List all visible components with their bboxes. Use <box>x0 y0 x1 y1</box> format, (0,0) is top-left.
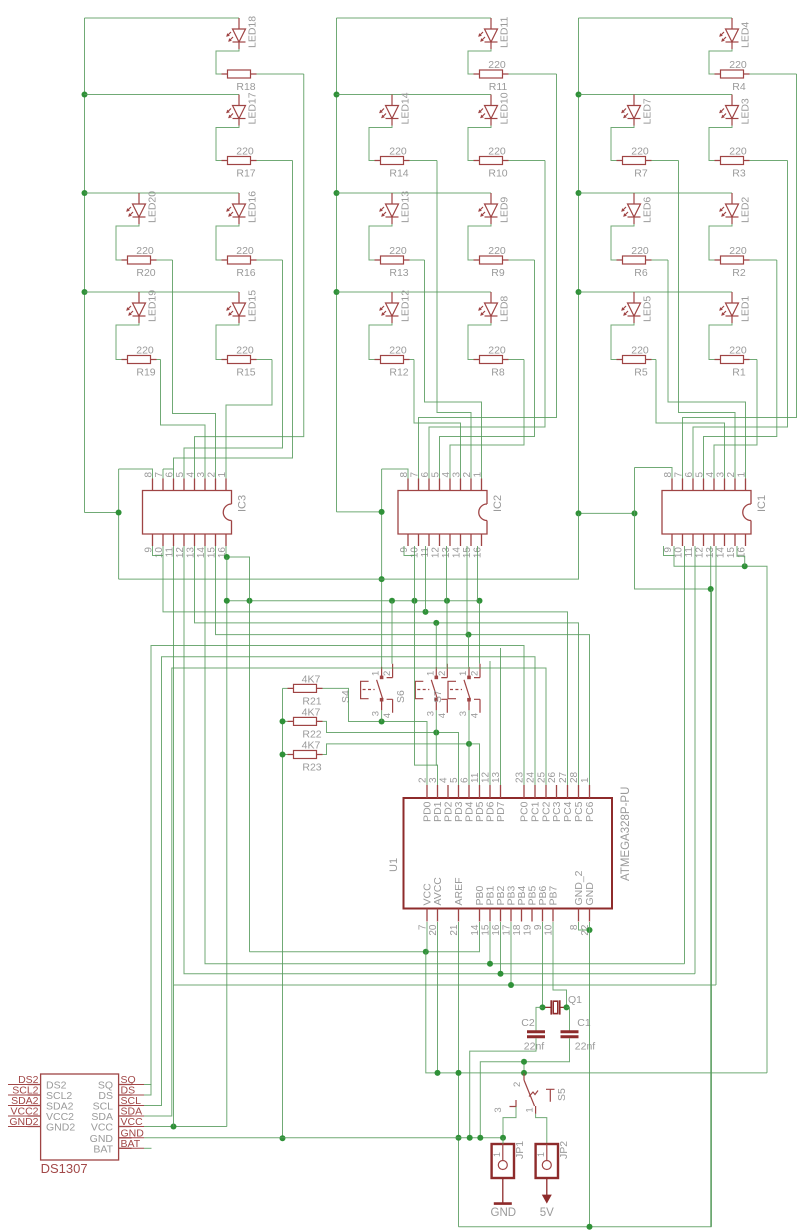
wire S5 pin3 to JP1 <box>503 1107 516 1138</box>
resistor R15 <box>222 356 257 364</box>
LED LED18 <box>227 18 246 49</box>
wire VCC drop <box>426 922 428 952</box>
svg-text:3: 3 <box>196 472 207 478</box>
junction bus row4 <box>82 289 88 295</box>
wire row3 <box>337 192 492 194</box>
supply symbol 5V <box>546 1178 548 1196</box>
svg-text:6: 6 <box>420 472 431 478</box>
svg-text:R4: R4 <box>732 81 746 93</box>
resistor R23 <box>288 751 323 759</box>
svg-text:R15: R15 <box>236 367 255 379</box>
LED LED16 <box>227 193 246 224</box>
svg-text:1: 1 <box>492 1152 502 1157</box>
junction VCC row IC3p11 <box>171 1124 177 1130</box>
svg-text:BAT: BAT <box>93 1143 113 1155</box>
svg-text:IC1: IC1 <box>756 495 768 512</box>
svg-text:2: 2 <box>512 1082 523 1087</box>
IC IC3 16-pin <box>143 479 232 547</box>
wire IC1 pin8 feeder <box>635 468 711 590</box>
wire IC3 pin9-10 bridge <box>153 546 164 556</box>
resistor R5 <box>617 356 652 364</box>
resistor R16 <box>222 256 257 264</box>
wire PB7 to crystal right <box>553 922 567 1007</box>
svg-text:C1: C1 <box>577 1017 591 1029</box>
wire row1 <box>85 17 240 19</box>
svg-text:8: 8 <box>144 472 155 478</box>
svg-text:220: 220 <box>729 146 747 158</box>
svg-text:10: 10 <box>154 547 165 559</box>
svg-text:LED9: LED9 <box>499 197 511 223</box>
svg-text:15: 15 <box>207 547 218 559</box>
svg-text:4: 4 <box>437 713 448 718</box>
svg-text:1: 1 <box>371 671 382 676</box>
resistor R4 <box>715 70 750 78</box>
svg-text:220: 220 <box>389 245 407 257</box>
wire C1 to GND drop <box>480 1038 569 1137</box>
wire row4 <box>579 291 733 293</box>
wire S4 pin2 drop <box>391 601 393 664</box>
wire R23 to S7.3 net <box>323 744 480 785</box>
wire DS row to PC0 <box>144 646 524 1096</box>
wire row4 <box>85 291 240 293</box>
svg-text:15: 15 <box>481 924 492 936</box>
svg-text:LED10: LED10 <box>499 92 511 124</box>
svg-text:16: 16 <box>473 547 484 559</box>
wire IC2 pin16 drop <box>477 546 479 601</box>
LED LED19 <box>127 292 146 323</box>
svg-text:R17: R17 <box>236 168 255 180</box>
svg-text:U1: U1 <box>388 858 400 872</box>
LED LED20 <box>127 193 146 224</box>
svg-text:220: 220 <box>136 245 154 257</box>
wire IC1 pin12 to PB2 line <box>694 546 696 974</box>
wire IC2 pin9-10 bridge <box>404 546 415 556</box>
svg-text:220: 220 <box>729 345 747 357</box>
wire C2 to GND drop <box>470 1038 536 1137</box>
svg-text:LED5: LED5 <box>642 296 654 322</box>
wire AVCC drop <box>437 922 439 1073</box>
svg-text:220: 220 <box>136 345 154 357</box>
wire IC1 input fan <box>656 360 725 479</box>
wire LED20 cathode <box>116 224 139 260</box>
junction bus3 link <box>576 510 582 516</box>
junction JP1 top <box>500 1135 506 1141</box>
IC IC2 16-pin <box>398 479 487 547</box>
junction bus row3 <box>334 190 340 196</box>
wire PD6 riser <box>489 661 491 785</box>
svg-text:5: 5 <box>695 472 706 478</box>
svg-text:22nf: 22nf <box>575 1041 596 1053</box>
resistor R2 <box>715 256 750 264</box>
wire IC1 pin13 long drop <box>710 546 712 1227</box>
wire LED8 cathode <box>468 323 491 360</box>
wire LED10 cathode <box>468 126 491 161</box>
svg-text:3: 3 <box>371 711 382 716</box>
svg-text:R19: R19 <box>136 367 155 379</box>
junction VCC pin <box>423 949 429 955</box>
svg-text:4: 4 <box>470 713 481 718</box>
svg-text:PC6: PC6 <box>584 801 596 822</box>
wire LED12 cathode <box>369 323 392 360</box>
wire VCC row <box>144 1126 227 1128</box>
svg-text:220: 220 <box>236 345 254 357</box>
svg-text:DS1307: DS1307 <box>41 1161 88 1176</box>
svg-text:R3: R3 <box>732 168 746 180</box>
wire IC3 pin16 column down to VCC row <box>226 557 228 1127</box>
wire row2 <box>337 94 492 96</box>
wire BAT row stub <box>144 1147 152 1149</box>
svg-text:220: 220 <box>729 245 747 257</box>
junction crystal left <box>540 1004 546 1010</box>
resistor R21 <box>288 684 323 692</box>
resistor R7 <box>617 157 652 165</box>
wire PB6 to crystal <box>542 922 544 1007</box>
svg-text:LED4: LED4 <box>740 22 752 48</box>
svg-text:GND: GND <box>584 882 596 906</box>
wire row1 <box>337 17 492 19</box>
wire LED6 cathode <box>611 224 634 260</box>
svg-text:3: 3 <box>458 711 469 716</box>
svg-text:S7: S7 <box>432 690 444 703</box>
svg-text:15: 15 <box>726 547 737 559</box>
wire IC1 pin11 to PB1 line <box>684 546 686 964</box>
svg-text:R14: R14 <box>389 168 408 180</box>
svg-text:1: 1 <box>737 472 748 478</box>
junction S7 pin3 <box>466 741 472 747</box>
wire row1 <box>579 17 733 19</box>
svg-text:Q1: Q1 <box>568 994 582 1006</box>
svg-text:220: 220 <box>631 245 649 257</box>
switch S5 <box>510 1073 555 1113</box>
svg-text:1: 1 <box>458 671 469 676</box>
svg-text:9: 9 <box>663 547 674 553</box>
wire PB2 line y=973.8 <box>184 546 695 974</box>
junction bus row2 <box>82 92 88 98</box>
wire JP1 top <box>502 1138 504 1144</box>
wire IC2 pin13 drop <box>446 546 448 601</box>
wire IC2 pin15 drop <box>466 546 468 635</box>
resistor R22 <box>288 717 323 725</box>
ground symbol GND <box>502 1178 504 1204</box>
IC IC1 16-pin <box>662 479 751 547</box>
svg-text:LED8: LED8 <box>499 296 511 322</box>
svg-text:LED18: LED18 <box>247 16 259 48</box>
LED LED12 <box>380 292 399 323</box>
wire group bus x=84.5 <box>84 18 86 513</box>
LED LED7 <box>622 95 641 126</box>
wire LED13 cathode <box>369 224 392 260</box>
resistor R11 <box>474 70 509 78</box>
svg-text:3: 3 <box>425 711 436 716</box>
wire resistor outputs group3 <box>750 73 797 75</box>
jumper JP1 <box>492 1144 514 1178</box>
wire AREF drop <box>458 922 460 1227</box>
wire GND pins merge <box>579 922 590 930</box>
svg-text:1: 1 <box>217 472 228 478</box>
svg-text:R20: R20 <box>136 267 155 279</box>
svg-text:C2: C2 <box>521 1017 535 1029</box>
svg-text:220: 220 <box>488 146 506 158</box>
wire IC3 input fan <box>161 360 206 479</box>
svg-text:LED11: LED11 <box>499 17 511 48</box>
svg-text:220: 220 <box>631 146 649 158</box>
svg-text:LED19: LED19 <box>147 290 159 322</box>
svg-text:GND2: GND2 <box>46 1122 75 1134</box>
svg-text:18: 18 <box>512 924 523 936</box>
wire PB1 line y=963.8 <box>205 546 685 964</box>
svg-text:220: 220 <box>236 146 254 158</box>
svg-text:2: 2 <box>437 671 448 676</box>
wire group bus x=578.5 <box>578 18 580 513</box>
svg-text:3: 3 <box>452 472 463 478</box>
svg-text:R8: R8 <box>491 367 505 379</box>
LED LED14 <box>380 95 399 126</box>
wire IC2 pin8 feeder from bus2 <box>337 511 382 513</box>
svg-text:LED16: LED16 <box>247 191 259 223</box>
svg-text:GND: GND <box>491 1207 517 1219</box>
svg-text:LED2: LED2 <box>740 197 752 223</box>
wire LED4 cathode <box>709 49 732 74</box>
svg-text:R2: R2 <box>732 267 746 279</box>
junction IC1 feeder link <box>632 510 638 516</box>
junction bus row4 <box>334 289 340 295</box>
svg-text:LED12: LED12 <box>400 290 412 322</box>
svg-text:S5: S5 <box>556 1088 568 1101</box>
svg-text:14: 14 <box>196 547 207 559</box>
svg-text:PD7: PD7 <box>495 801 507 822</box>
resistor R3 <box>715 157 750 165</box>
svg-text:17: 17 <box>502 924 513 936</box>
svg-text:220: 220 <box>729 59 747 71</box>
LED LED17 <box>227 95 246 126</box>
wire LED1 cathode <box>709 323 732 360</box>
svg-text:15: 15 <box>462 547 473 559</box>
junction bus row4 <box>576 289 582 295</box>
switch S4 <box>361 664 393 713</box>
svg-text:220: 220 <box>488 59 506 71</box>
resistor R20 <box>122 256 157 264</box>
wire bottom rail <box>459 1226 712 1228</box>
junction bus row2 <box>334 92 340 98</box>
svg-text:LED17: LED17 <box>247 92 259 124</box>
svg-text:220: 220 <box>631 345 649 357</box>
svg-text:16: 16 <box>491 924 502 936</box>
junction feeder-B579 <box>379 576 385 582</box>
wire S6 pin1 from B623 <box>435 623 437 667</box>
svg-text:8: 8 <box>399 472 410 478</box>
svg-text:JP1: JP1 <box>514 1141 526 1159</box>
wire LED14 cathode <box>369 126 392 161</box>
wire LED2 cathode <box>709 224 732 260</box>
wire S5 pin1 to JP2 <box>536 1114 547 1144</box>
junction bus row3 <box>576 190 582 196</box>
svg-text:7: 7 <box>674 472 685 478</box>
svg-text:1: 1 <box>425 671 436 676</box>
resistor R9 <box>474 256 509 264</box>
svg-text:4K7: 4K7 <box>302 673 321 685</box>
resistor R1 <box>715 356 750 364</box>
wire C1/S5 tap to bus1 <box>523 1062 525 1073</box>
svg-text:11: 11 <box>684 547 695 558</box>
svg-text:LED14: LED14 <box>400 92 412 124</box>
svg-text:LED3: LED3 <box>740 98 752 124</box>
wire IC3 pin8 feeder from bus1 <box>85 512 119 514</box>
svg-text:R18: R18 <box>236 81 255 93</box>
junction S4 pin3 <box>379 719 385 725</box>
jumper JP2 <box>536 1144 558 1178</box>
wire R21-23 left bus <box>283 687 288 689</box>
wire bus B601 <box>227 600 481 602</box>
svg-text:2: 2 <box>382 671 393 676</box>
junction S6 pin3 <box>433 730 439 736</box>
wire PB3 line y=985 <box>174 546 717 985</box>
wire row2 <box>85 94 240 96</box>
svg-text:14: 14 <box>716 547 727 559</box>
wire GND row <box>144 1137 503 1139</box>
svg-text:R9: R9 <box>491 267 505 279</box>
wire LED19 cathode <box>116 323 139 360</box>
wire SDA row to PC2 <box>144 668 546 1116</box>
svg-text:S6: S6 <box>395 690 407 703</box>
svg-text:14: 14 <box>470 924 481 936</box>
svg-text:AREF: AREF <box>453 877 465 905</box>
svg-text:19: 19 <box>523 924 534 936</box>
wire IC2p10 net to PD1 <box>415 601 438 765</box>
svg-text:R5: R5 <box>634 367 648 379</box>
LED LED10 <box>479 95 498 126</box>
svg-text:LED13: LED13 <box>400 191 412 223</box>
svg-text:220: 220 <box>389 345 407 357</box>
LED LED3 <box>720 95 739 126</box>
svg-text:12: 12 <box>431 547 442 559</box>
crystal Q1 <box>543 1000 567 1014</box>
wire bus3 to IC1 notch link <box>579 512 635 514</box>
resistor R17 <box>222 157 257 165</box>
svg-text:26: 26 <box>547 771 558 783</box>
resistor R18 <box>222 70 257 78</box>
svg-text:220: 220 <box>389 146 407 158</box>
wire LED18 cathode <box>216 49 239 74</box>
svg-text:LED6: LED6 <box>642 197 654 223</box>
switch S7 <box>448 664 480 713</box>
wire PD7 riser <box>500 648 502 785</box>
svg-text:5V: 5V <box>540 1207 554 1219</box>
LED LED2 <box>720 193 739 224</box>
svg-text:5: 5 <box>175 472 186 478</box>
svg-text:IC3: IC3 <box>237 495 249 512</box>
svg-text:3: 3 <box>716 472 727 478</box>
wire SCL row to PC1 <box>144 657 535 1106</box>
wire IC3 p11 riser <box>173 985 175 1127</box>
resistor R6 <box>617 256 652 264</box>
svg-text:6: 6 <box>165 472 176 478</box>
svg-text:2: 2 <box>207 472 218 478</box>
svg-text:1: 1 <box>525 1107 536 1112</box>
svg-text:28: 28 <box>569 771 580 783</box>
svg-text:220: 220 <box>236 245 254 257</box>
LED LED5 <box>622 292 641 323</box>
svg-text:1: 1 <box>536 1152 546 1157</box>
junction bus row2 <box>576 92 582 98</box>
wire R22 to S6.3 net <box>323 721 459 785</box>
svg-text:12: 12 <box>695 547 706 559</box>
wire bus B612 to PC4 <box>163 546 568 785</box>
resistor R13 <box>375 256 410 264</box>
wire resistor outputs group1 <box>257 73 304 75</box>
junction R-bus GND row <box>280 1135 286 1141</box>
svg-text:4: 4 <box>705 472 716 478</box>
resistor R8 <box>474 356 509 364</box>
svg-text:LED20: LED20 <box>147 191 159 223</box>
wire resistor outputs group2 <box>509 73 557 75</box>
resistor R14 <box>375 157 410 165</box>
resistor R12 <box>375 356 410 364</box>
wire row2 <box>579 94 733 96</box>
svg-text:1: 1 <box>473 472 484 478</box>
svg-text:1: 1 <box>580 777 591 783</box>
wire row3 <box>579 192 733 194</box>
wire LED16 cathode <box>216 224 239 260</box>
svg-text:9: 9 <box>144 547 155 553</box>
junction crystal right <box>564 1004 570 1010</box>
svg-text:S4: S4 <box>340 690 352 703</box>
wire LED9 cathode <box>468 224 491 260</box>
svg-text:ATMEGA328P-PU: ATMEGA328P-PU <box>620 787 632 881</box>
svg-text:14: 14 <box>452 547 463 559</box>
svg-text:8: 8 <box>663 472 674 478</box>
wire IC3 pin16 jog down <box>226 546 250 952</box>
resistor R10 <box>474 157 509 165</box>
svg-text:R10: R10 <box>488 168 507 180</box>
svg-text:LED1: LED1 <box>740 296 752 322</box>
svg-text:R11: R11 <box>489 81 508 93</box>
LED LED1 <box>720 292 739 323</box>
svg-text:7: 7 <box>154 472 165 478</box>
svg-text:R6: R6 <box>634 267 648 279</box>
wire bus B635 to PC6 <box>216 546 590 785</box>
capacitor C1 <box>567 1007 570 1030</box>
svg-text:LED7: LED7 <box>642 98 654 124</box>
resistor R19 <box>122 356 157 364</box>
wire IC2 pin10 drop <box>414 546 416 601</box>
wire row4 <box>337 291 492 293</box>
svg-text:3: 3 <box>493 1107 504 1112</box>
svg-text:R13: R13 <box>389 267 408 279</box>
wire IC1 pin16 jog <box>737 546 745 566</box>
wire bus1 right loop <box>712 1072 768 1074</box>
wire IC1 pin9-10 bridge <box>664 546 675 556</box>
wire LED17 cathode <box>216 126 239 161</box>
svg-text:220: 220 <box>488 345 506 357</box>
wire IC2 pin11 drop <box>425 546 427 612</box>
svg-text:4: 4 <box>382 713 393 718</box>
svg-text:4: 4 <box>441 472 452 478</box>
wire S6 pin1 drop <box>446 601 448 667</box>
wire bus B579 <box>119 513 579 579</box>
svg-text:R12: R12 <box>389 367 408 379</box>
wire PB0/VCC line y=951.8 <box>250 922 480 952</box>
wire bus B623 to PC5 <box>195 546 579 785</box>
wire row3 <box>85 192 240 194</box>
svg-text:R23: R23 <box>302 762 321 774</box>
svg-text:JP2: JP2 <box>558 1141 570 1159</box>
svg-text:4K7: 4K7 <box>302 740 321 752</box>
LED LED15 <box>227 292 246 323</box>
svg-text:13: 13 <box>186 547 197 559</box>
svg-text:6: 6 <box>684 472 695 478</box>
wire LED15 cathode <box>216 323 239 360</box>
svg-text:VCC: VCC <box>91 1122 114 1134</box>
